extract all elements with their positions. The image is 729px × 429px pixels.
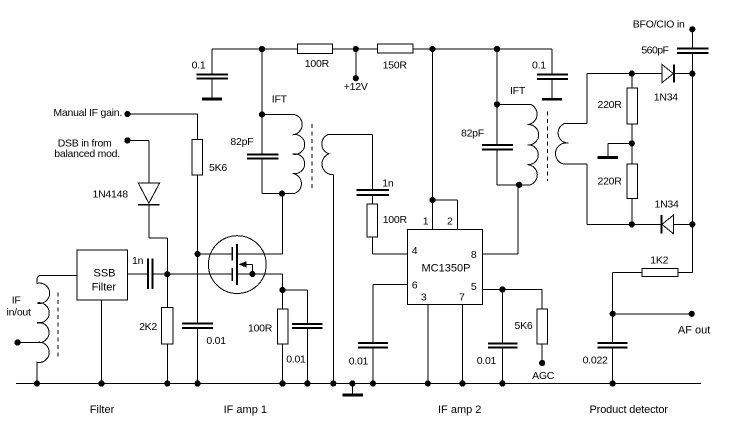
svg-text:4: 4: [412, 245, 418, 257]
wire pin 7 to ground: [462, 305, 464, 384]
pin 5 label: [471, 281, 477, 293]
node signal junction: [164, 271, 170, 277]
svg-text:0.1: 0.1: [192, 60, 206, 72]
diode 1N34 (top): [662, 64, 674, 82]
svg-text:5K6: 5K6: [209, 162, 227, 174]
label SSB: [94, 267, 116, 279]
svg-text:2: 2: [447, 216, 453, 228]
capacitor 560pF: [677, 48, 708, 73]
capacitor 0.01 (source bypass): [292, 290, 322, 384]
inductor IF in/out coil: [37, 276, 77, 384]
label AGC: [532, 370, 555, 382]
MOSFET channel electrode: [236, 244, 238, 285]
node IFT1 primary top junction: [259, 111, 265, 117]
node +12V terminal: [353, 46, 359, 81]
capacitor 0.1 (right decoupling) body: [537, 49, 568, 98]
wire rail to IFT2 primary top: [496, 49, 498, 104]
IFT2 core dashed line: [546, 112, 548, 182]
pin 3 label: [421, 292, 427, 304]
IFT1 core dashed line: [311, 124, 313, 191]
label Filter (box): [92, 282, 117, 294]
label 100R (source): [248, 323, 273, 335]
node rail junction 0.01 gate: [195, 380, 201, 386]
op-amp IC MC1350P body: [408, 230, 483, 305]
node AF junction: [610, 311, 616, 317]
node rail junction pin7: [459, 380, 465, 386]
capacitor 0.01 (pin5): [488, 289, 518, 383]
resistor 220R (upper): [627, 88, 638, 124]
wire 1n to gate2: [153, 273, 233, 275]
wire DSB terminal to diode: [130, 140, 149, 183]
node AF out terminal: [689, 311, 695, 317]
wire pin 8 to IFT2: [483, 185, 519, 254]
label 0.01 (source bypass): [286, 354, 306, 366]
wire manual gain to 5K6: [130, 114, 197, 139]
MOSFET gate1 electrode: [231, 247, 233, 261]
svg-text:Product detector: Product detector: [590, 404, 669, 416]
node junction rail/IFT1: [259, 46, 265, 52]
node junction rail/pins1-2: [429, 46, 435, 52]
wire pin 6 decoupling: [373, 285, 408, 343]
wire source junction to bypass cap: [283, 289, 308, 291]
svg-text:1n: 1n: [132, 255, 144, 267]
wire bottom detector row: [587, 223, 692, 225]
node IF in/out terminal: [14, 339, 20, 345]
diode 1N34 (bottom): [661, 215, 673, 234]
node gate1 junction: [195, 251, 201, 257]
label Product detector: [590, 404, 669, 416]
node junction rail/IFT2: [494, 46, 500, 52]
node rail junction 100R source: [279, 380, 285, 386]
svg-text:150R: 150R: [383, 59, 408, 71]
wire top detector row: [587, 73, 692, 75]
label IF amp 1: [224, 404, 267, 416]
wire pin 5 AGC line: [483, 288, 543, 290]
node source/substrate junction: [249, 271, 255, 277]
svg-text:BFO/CIO in: BFO/CIO in: [633, 18, 685, 30]
node rail junction 0.01 pin6: [370, 380, 376, 386]
svg-text:Manual IF gain.: Manual IF gain.: [53, 107, 122, 119]
node IFT2 primary bottom tap: [516, 182, 522, 188]
node divider midpoint: [629, 140, 635, 146]
node AGC terminal: [539, 360, 545, 366]
svg-text:0.01: 0.01: [286, 354, 306, 366]
diode 1N4148: [138, 183, 159, 205]
svg-text:6: 6: [412, 279, 418, 291]
label 5K6 (left): [209, 162, 227, 174]
pin 4 label: [412, 245, 418, 257]
svg-text:100R: 100R: [305, 58, 330, 70]
label 560pF: [641, 44, 668, 56]
svg-text:8: 8: [471, 249, 477, 261]
label BFO/CIO in: [633, 18, 685, 30]
svg-text:82pF: 82pF: [230, 136, 253, 148]
label 5K6 (AGC): [515, 320, 533, 332]
node rail junction 2K2: [164, 380, 170, 386]
svg-text:+12V: +12V: [344, 81, 368, 93]
wire rail down to MC1350P pins 1-2: [432, 49, 434, 200]
inductor IFT1 primary winding: [293, 114, 305, 193]
wire pin4 input: [373, 253, 408, 255]
capacitor 1n (coupling): [148, 259, 152, 290]
wire top +12V supply rail: [212, 48, 552, 50]
label 100R (chip input): [383, 214, 408, 226]
node rail junction 0.01 pin5: [499, 380, 505, 386]
wire right vertical bus: [691, 74, 693, 225]
svg-text:Filter: Filter: [92, 282, 117, 294]
resistor 100R (source): [277, 290, 288, 384]
inductor IFT1 secondary winding: [322, 135, 334, 175]
capacitor 0.01 (pin6): [358, 343, 388, 384]
node BFO/CIO terminal: [689, 26, 695, 32]
label in/out: [7, 307, 32, 319]
resistor 2K2: [162, 274, 173, 383]
svg-text:in/out: in/out: [7, 307, 32, 319]
svg-text:SSB: SSB: [94, 267, 116, 279]
svg-text:0.01: 0.01: [477, 355, 497, 367]
wire SSB output to 1n: [127, 273, 148, 275]
resistor 220R (lower): [627, 164, 638, 199]
wire rail to IFT1 primary top: [261, 49, 263, 114]
label IFT (first): [272, 93, 288, 105]
label 2K2: [139, 321, 157, 333]
svg-text:82pF: 82pF: [461, 128, 484, 140]
wire 1K2 to AF node: [613, 273, 642, 314]
node detector row right junction: [689, 71, 695, 77]
label AF out: [678, 325, 710, 337]
label MC1350P: [422, 263, 471, 275]
wire bottom ground rail: [16, 383, 701, 385]
MOSFET substrate arrow: [238, 261, 252, 274]
svg-text:IFT: IFT: [272, 93, 288, 105]
wire SSB bottom to rail: [101, 300, 103, 384]
svg-text:1: 1: [423, 216, 429, 228]
capacitor 1n (IFT1 secondary): [357, 135, 389, 204]
svg-text:1n: 1n: [382, 178, 394, 190]
wire BFO to 560pF: [691, 29, 693, 48]
node rail junction SSB: [98, 380, 104, 386]
node source bias junction: [279, 287, 285, 293]
ground (main): [343, 384, 363, 397]
label 1N34 (top): [654, 92, 679, 104]
svg-text:1N4148: 1N4148: [93, 189, 129, 201]
resistor 100R (top rail): [297, 44, 332, 53]
svg-text:560pF: 560pF: [641, 44, 668, 56]
svg-text:2K2: 2K2: [139, 321, 157, 333]
pin 6 label: [412, 279, 418, 291]
node bottom row left junction: [629, 221, 635, 227]
resistor 1K2: [642, 269, 678, 277]
svg-text:MC1350P: MC1350P: [422, 263, 471, 275]
wire gate1 bias tap: [198, 253, 233, 255]
ground (right 0.1 cap): [542, 98, 562, 101]
node IFT1 primary bottom tap: [279, 191, 285, 197]
node bottom row right junction: [689, 221, 695, 227]
transistor dual-gate MOSFET circle: [208, 236, 266, 294]
wire IFT2 primary top lead: [497, 103, 530, 105]
svg-text:220R: 220R: [598, 99, 623, 111]
svg-text:AF out: AF out: [678, 325, 710, 337]
wire 220R divider chain: [631, 74, 633, 225]
svg-text:100R: 100R: [248, 323, 273, 335]
label 220R (lower): [598, 175, 623, 187]
wire AF out: [613, 313, 692, 315]
label 1N4148: [93, 189, 129, 201]
MOSFET gate2 electrode: [231, 268, 233, 281]
svg-text:IF amp 1: IF amp 1: [224, 404, 267, 416]
svg-text:1K2: 1K2: [650, 255, 668, 267]
svg-text:balanced mod.: balanced mod.: [54, 148, 120, 160]
node Manual IF gain terminal: [124, 111, 130, 117]
ground (divider midpoint): [598, 156, 619, 159]
node rail junction 0.022: [610, 380, 616, 386]
wire IFT1 primary top lead: [262, 113, 294, 115]
label 0.1 (right): [532, 60, 546, 72]
svg-text:220R: 220R: [598, 175, 623, 187]
node rail junction pin3: [425, 380, 431, 386]
ground (left 0.1 cap): [202, 97, 222, 100]
label 1N34 (bottom): [655, 198, 680, 210]
label IF: [12, 294, 21, 306]
wire IFT2 secondary bottom lead: [564, 164, 587, 224]
label IFT (second): [510, 85, 526, 97]
svg-text:5: 5: [471, 281, 477, 293]
pin 1 label: [423, 216, 429, 228]
label 220R (upper): [598, 99, 623, 111]
resistor 150R (top rail): [377, 44, 412, 53]
label 1n (IFT1 secondary): [382, 178, 394, 190]
capacitor 82pF (IFT2 tank): [482, 104, 513, 185]
label 0.1 (left): [192, 60, 206, 72]
label 0.01 (gate bias): [206, 335, 226, 347]
svg-text:5K6: 5K6: [515, 320, 533, 332]
svg-text:0.01: 0.01: [206, 335, 226, 347]
svg-text:IF: IF: [12, 294, 21, 306]
svg-text:IFT: IFT: [510, 85, 526, 97]
node rail junction IFT1 sec: [330, 380, 336, 386]
node rail junction coil: [34, 380, 40, 386]
wire IFT2 primary bottom lead: [497, 184, 530, 186]
pin 2 label: [447, 216, 453, 228]
resistor 5K6 (gate bias): [192, 139, 203, 254]
label DSB in from: [58, 137, 112, 149]
wire pin 3 to ground: [427, 305, 429, 384]
wire MOSFET source: [237, 273, 282, 275]
capacitor 0.022: [598, 314, 628, 384]
svg-text:1N34: 1N34: [654, 92, 679, 104]
node DSB in terminal: [124, 137, 130, 143]
wire IFT1 secondary bottom to ground rail: [332, 175, 334, 384]
svg-text:100R: 100R: [383, 214, 408, 226]
inductor IFT2 primary winding: [527, 104, 538, 185]
inductor IFT2 secondary winding: [555, 124, 568, 165]
resistor 5K6 (AGC): [537, 289, 547, 363]
wire bus down to 1K2: [678, 224, 692, 272]
label 100R (top rail): [305, 58, 330, 70]
label 0.01 (pin5): [477, 355, 497, 367]
pin 8 label: [471, 249, 477, 261]
node rail junction 0.01 source: [304, 380, 310, 386]
wire source down to bias network: [282, 274, 284, 290]
wire MOSFET drain to IFT1 tap: [237, 194, 282, 254]
capacitor 0.1 (left decoupling) body: [197, 49, 229, 98]
label 0.022: [583, 355, 608, 367]
node pins1-2 junction: [429, 197, 435, 203]
label 1n (coupling): [132, 255, 144, 267]
node detector row left junction: [629, 71, 635, 77]
svg-text:7: 7: [459, 292, 465, 304]
svg-text:AGC: AGC: [532, 370, 555, 382]
label IF amp 2: [438, 404, 481, 416]
wire IFT2 secondary top lead: [564, 74, 587, 124]
wire diode cathode to signal node: [149, 205, 167, 275]
node pin5 junction: [499, 286, 505, 292]
svg-text:0.022: 0.022: [583, 355, 608, 367]
capacitor 82pF (IFT1 tank): [247, 114, 279, 193]
filter box SSB Filter: [77, 250, 127, 300]
svg-text:Filter: Filter: [90, 404, 115, 416]
label 82pF (right): [461, 128, 484, 140]
pin 7 label: [459, 292, 465, 304]
label Manual IF gain.: [53, 107, 122, 119]
label +12V: [344, 81, 368, 93]
label 150R: [383, 59, 408, 71]
wire midpoint to ground: [608, 143, 632, 156]
svg-text:IF amp 2: IF amp 2: [438, 404, 481, 416]
label 82pF (left): [230, 136, 253, 148]
wire IFT1 primary bottom lead: [262, 193, 294, 195]
capacitor 0.01 (gate bias bypass): [182, 254, 213, 384]
svg-text:0.1: 0.1: [532, 60, 546, 72]
wire pins 1-2 strap: [433, 200, 458, 230]
label 0.01 (pin6): [349, 355, 369, 367]
label balanced mod.: [54, 148, 120, 160]
label Filter (section): [90, 404, 115, 416]
node rail junction main gnd: [349, 380, 355, 386]
wire IF in/out tap: [18, 342, 37, 344]
node IFT2 primary top junction: [494, 101, 500, 107]
resistor 100R (chip input): [367, 204, 378, 254]
svg-text:3: 3: [421, 292, 427, 304]
label 1K2: [650, 255, 668, 267]
svg-text:1N34: 1N34: [655, 198, 680, 210]
svg-text:0.01: 0.01: [349, 355, 369, 367]
wire IFT1 secondary top lead: [328, 134, 372, 136]
IF coil core dashed line: [57, 292, 59, 359]
